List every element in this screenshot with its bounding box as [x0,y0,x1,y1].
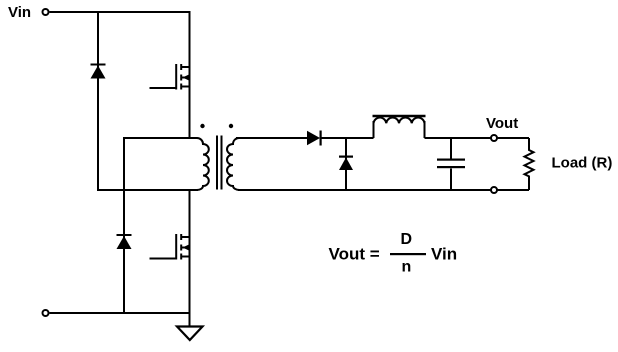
diode D3 rectifier (triangle) [307,131,320,146]
capacitor C plate bottom [437,166,465,168]
wire Q2 drain/source vertical line [189,189,191,313]
wire D3 cathode to inductor [321,137,374,139]
diode D1 clamp (bar) [91,64,106,66]
wire Q1 drain/source vertical line [189,11,191,138]
label equation fraction bar [390,253,426,255]
diode D3 rectifier (bar) [320,131,322,146]
transistor Q1 MOSFET [176,64,190,90]
svg-text:Vin: Vin [8,4,31,21]
wire inductor to Vout terminal [425,137,492,139]
transformer T1 primary dot [200,124,204,128]
wire Q1 gate lead [150,87,177,89]
wire Vout terminal to load top [497,137,529,139]
wire top rail Vin to Q1 drain [50,11,190,13]
node Vout terminal [491,135,497,141]
diode D2 clamp (bar) [117,234,132,236]
wire freewheel diode branch [345,138,347,190]
svg-text:n: n [402,259,412,276]
diode D4 freewheel (triangle) [339,158,353,171]
wire D1 branch vertical [97,11,99,190]
transformer T1 secondary winding [227,138,239,190]
diode D2 clamp (triangle) [117,236,132,249]
wire primary top lead [123,137,198,139]
transformer T1 secondary dot [229,124,233,128]
transformer T1 primary winding [197,138,209,190]
svg-text:Vout: Vout [486,115,518,132]
wire secondary top lead to D3 [236,137,307,139]
capacitor C branch top [450,138,452,159]
capacitor C branch bottom [450,169,452,191]
transistor Q2 MOSFET [176,234,190,260]
node bottom-left terminal [43,310,49,316]
inductor L [373,116,426,138]
wire primary bottom lead [97,189,198,191]
node Vout return terminal [491,187,497,193]
wire bottom lead terminal to load [497,189,529,191]
wire bottom rail [50,312,190,314]
wire ground stem [189,313,191,327]
svg-text:Vin: Vin [431,245,457,264]
wire Q2 gate lead [150,258,177,260]
wire D2 branch vertical [123,138,125,313]
node Vin terminal [43,9,49,15]
svg-text:Vout =: Vout = [329,245,380,264]
wire secondary bottom lead [238,189,491,191]
diode D4 freewheel (bar) [339,156,353,158]
svg-text:D: D [401,231,413,248]
diode D1 clamp (triangle) [91,66,106,79]
transformer T1 core line right [221,136,223,190]
ground [177,327,203,341]
capacitor C plate top [437,159,465,161]
resistor Load (R) zigzag [525,138,534,190]
svg-text:Load (R): Load (R) [552,155,613,172]
transformer T1 core line left [216,136,218,190]
